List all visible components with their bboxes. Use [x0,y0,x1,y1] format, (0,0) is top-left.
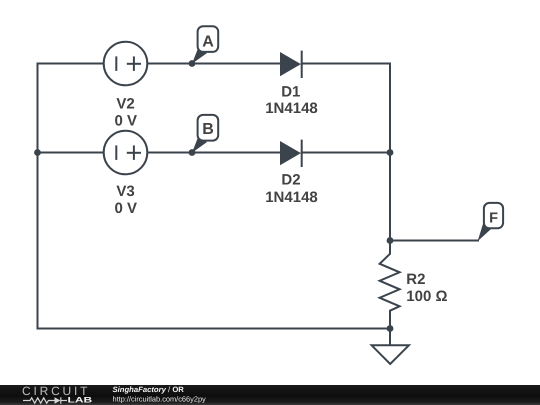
svg-text:1N4148: 1N4148 [265,189,318,206]
svg-text:D1: D1 [281,84,300,101]
svg-text:0 V: 0 V [115,200,138,217]
svg-text:LAB: LAB [68,396,93,405]
svg-text:B: B [202,121,214,138]
wire: node A to D1 anode [192,63,280,65]
svg-text:D2: D2 [281,171,300,188]
wire: row1 left bus to V2 [38,63,104,65]
svg-text:100 Ω: 100 Ω [406,288,447,305]
wire: V3 to node B [147,152,192,154]
junction dot: bottom return / ground [387,325,394,332]
svg-text:0 V: 0 V [115,112,138,129]
svg-text:R2: R2 [406,271,425,288]
ground [372,329,409,365]
node B junction dot [189,149,196,156]
wire: node B to D2 anode [192,152,280,154]
svg-text:SinghaFactory / OR: SinghaFactory / OR [113,385,185,394]
wire: row2 left bus to V3 [38,152,104,154]
node A flag [192,26,218,64]
voltage source V2 [104,42,148,86]
svg-text:F: F [489,210,498,226]
junction dot: right bus / row2 [387,149,394,156]
wire: right vertical bus [389,64,391,241]
wire: left vertical bus [37,64,39,329]
footer bar [0,385,540,405]
svg-text:V2: V2 [116,95,134,112]
diode D1 [280,51,302,78]
CircuitLab logo: circuit squiggle with resistor and diode [23,397,67,403]
junction dot: right bus / node F wire [387,237,394,244]
voltage source V3 [104,131,148,175]
resistor R2 [380,241,400,329]
svg-text:A: A [202,34,214,51]
svg-text:1N4148: 1N4148 [265,100,318,117]
diode D2 [280,140,302,167]
wire: bottom return [38,328,391,330]
wire: junction to node F [390,240,478,242]
svg-text:V3: V3 [116,183,134,200]
node B flag [192,115,218,153]
svg-text:http://circuitlab.com/c66y2py: http://circuitlab.com/c66y2py [113,394,207,403]
wire: D1 cathode to right bus [302,63,390,65]
node F flag [478,203,504,241]
junction dot: left bus / row2 [34,149,41,156]
wire: V2 to node A [147,63,192,65]
wire: D2 cathode to right bus [302,152,390,154]
node A junction dot [189,60,196,67]
